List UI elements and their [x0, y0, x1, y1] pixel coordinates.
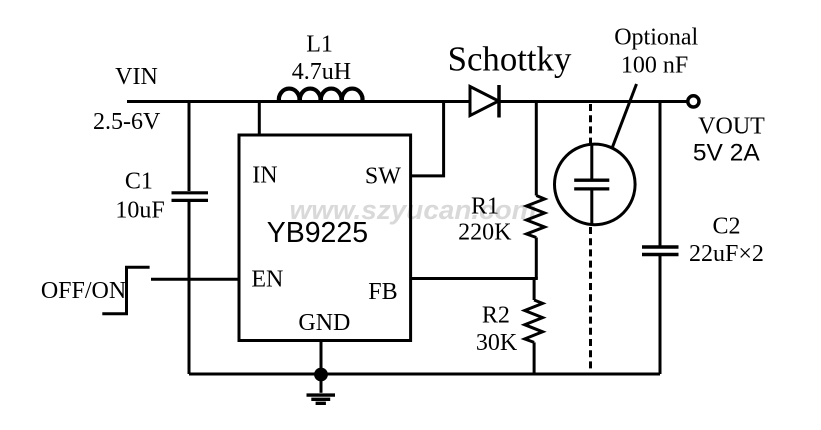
svg-text:22uF×2: 22uF×2	[689, 241, 764, 267]
svg-text:VOUT: VOUT	[698, 114, 765, 140]
svg-text:Schottky: Schottky	[448, 40, 572, 79]
svg-text:R2: R2	[482, 303, 510, 329]
svg-text:R1: R1	[471, 194, 499, 220]
svg-text:VIN: VIN	[115, 64, 158, 90]
svg-text:2.5-6V: 2.5-6V	[93, 109, 161, 135]
svg-text:100 nF: 100 nF	[621, 52, 688, 78]
svg-text:10uF: 10uF	[115, 198, 164, 224]
svg-text:30K: 30K	[476, 330, 518, 356]
svg-text:SW: SW	[365, 163, 401, 189]
svg-text:IN: IN	[252, 162, 277, 188]
svg-text:4.7uH: 4.7uH	[292, 59, 351, 85]
svg-text:GND: GND	[298, 310, 350, 336]
svg-text:C2: C2	[712, 214, 740, 240]
svg-text:5V 2A: 5V 2A	[693, 139, 760, 166]
svg-text:FB: FB	[368, 279, 397, 305]
svg-text:L1: L1	[306, 32, 333, 58]
svg-text:Optional: Optional	[614, 25, 698, 51]
svg-text:OFF/ON: OFF/ON	[41, 278, 126, 304]
svg-text:220K: 220K	[458, 220, 512, 246]
svg-text:EN: EN	[251, 266, 283, 292]
svg-text:YB9225: YB9225	[267, 217, 368, 249]
svg-text:C1: C1	[125, 169, 153, 195]
